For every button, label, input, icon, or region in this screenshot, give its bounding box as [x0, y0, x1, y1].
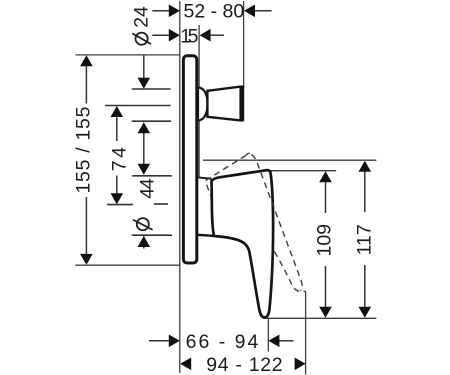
wire 74-bottom tick (pivot centre) — [107, 204, 133, 206]
dimension 66-94 — [149, 331, 294, 353]
outside arrows for diameter 24 — [143, 133, 145, 165]
wire T3 knob-centre tick — [105, 105, 171, 107]
sleeve top edge — [198, 177, 211, 178]
svg-text:24: 24 — [130, 6, 152, 28]
sleeve bottom edge — [198, 235, 214, 236]
wire dashed lever left edge — [206, 155, 247, 206]
wire dashed lever tip edge — [246, 153, 252, 155]
leader shaft from label through T1 — [143, 55, 145, 78]
wire V5 dashed-tip extension line — [305, 291, 307, 374]
svg-text:109: 109 — [314, 224, 336, 257]
wire T7 plate-bottom extension — [76, 264, 180, 266]
wire V1 wall extension line — [179, 1, 181, 373]
dimension 117 — [353, 161, 375, 318]
dimension D24 label and leader — [130, 6, 152, 175]
dimension 52-80 top — [152, 0, 271, 22]
knob neck line — [207, 91, 209, 117]
svg-text:74: 74 — [109, 144, 131, 171]
svg-text:66 - 94: 66 - 94 — [186, 331, 261, 353]
wire T2 knob-top tick — [132, 88, 171, 90]
wire line B top extension for 109 — [270, 170, 336, 172]
dimension 74 — [109, 106, 131, 204]
wire dashed lever outer edge — [252, 154, 303, 290]
wire V3 plate-face extension line — [198, 25, 200, 177]
svg-text:44: 44 — [137, 178, 159, 199]
svg-text:52 - 80: 52 - 80 — [184, 0, 245, 22]
wire T4 knob-bottom tick — [132, 120, 171, 122]
wire T1 plate-top extension — [76, 54, 181, 56]
wire T6 sleeve-bottom tick — [132, 234, 172, 236]
lever handle — [212, 170, 274, 317]
svg-text:155 / 155: 155 / 155 — [73, 106, 95, 194]
diameter symbol of 24 — [136, 33, 148, 45]
wire bottom extension for 109/117 — [263, 317, 376, 319]
escutcheon plate — [183, 56, 196, 263]
dimension 109 — [314, 171, 336, 318]
knob face thick edge — [241, 86, 244, 122]
svg-text:117: 117 — [353, 224, 375, 255]
wire V2 knob-face extension line — [243, 1, 245, 87]
knob cone — [207, 87, 240, 121]
svg-text:94 - 122: 94 - 122 — [206, 354, 283, 375]
dimension 15 — [152, 26, 224, 48]
dimension 94-122 — [180, 354, 305, 375]
dimension 155/155 — [73, 55, 95, 265]
wire dashed lever inner edge and foot — [274, 252, 305, 292]
wire T5 sleeve-top tick — [132, 175, 172, 177]
knob bulb — [198, 88, 208, 120]
wire line A top extension for 117 — [203, 159, 376, 161]
svg-text:5: 5 — [188, 26, 199, 48]
wire V4 handle-tip extension line — [267, 319, 269, 352]
dimension D44 — [133, 178, 159, 248]
